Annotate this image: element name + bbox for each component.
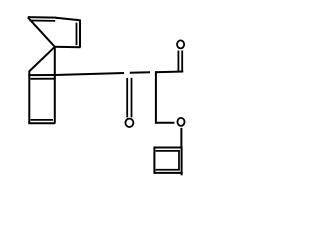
square ring: top edge — [154, 147, 183, 149]
ketone oxygen label O — [125, 119, 133, 127]
left ring: inner bottom line — [31, 119, 53, 121]
square ring: bottom edge — [154, 172, 183, 174]
square ring: inner contour top-right-bottom — [156, 151, 179, 170]
top ring: double bond lower line — [30, 20, 56, 22]
chain bond b — [130, 71, 150, 74]
chain bond a — [55, 73, 124, 75]
top ring: double bond upper line — [28, 16, 56, 19]
top ring: right edge inner — [76, 23, 78, 46]
aldehyde C=O double bond line 2 — [181, 51, 183, 71]
top ring: top edge right segment — [56, 18, 80, 21]
aldehyde oxygen label O — [177, 40, 184, 48]
chain bond c — [155, 71, 183, 74]
vertical bond from chain corner down — [155, 71, 157, 123]
horizontal bond to ester oxygen — [155, 122, 174, 124]
top ring: bottom edge — [54, 46, 80, 49]
left ring: left edge — [28, 71, 30, 124]
top ring: left diagonal edge — [28, 17, 55, 46]
diagonal bond apex to left ring top-left — [29, 47, 55, 72]
ester oxygen label O — [177, 118, 184, 126]
bond ester O down to square ring — [180, 128, 182, 148]
aldehyde C=O double bond line 1 — [177, 51, 179, 71]
left ring: bottom edge — [28, 122, 55, 124]
left ring: inner top line — [31, 78, 55, 80]
central vertical bond from apex through left ring right edge — [54, 47, 56, 124]
left ring: top edge — [28, 74, 54, 76]
ketone C=O double bond line 1 — [126, 78, 128, 118]
ketone C=O double bond line 2 — [131, 78, 133, 118]
top ring: right edge outer — [79, 20, 81, 48]
square ring: right edge — [181, 147, 183, 176]
square ring: left edge — [153, 147, 155, 174]
